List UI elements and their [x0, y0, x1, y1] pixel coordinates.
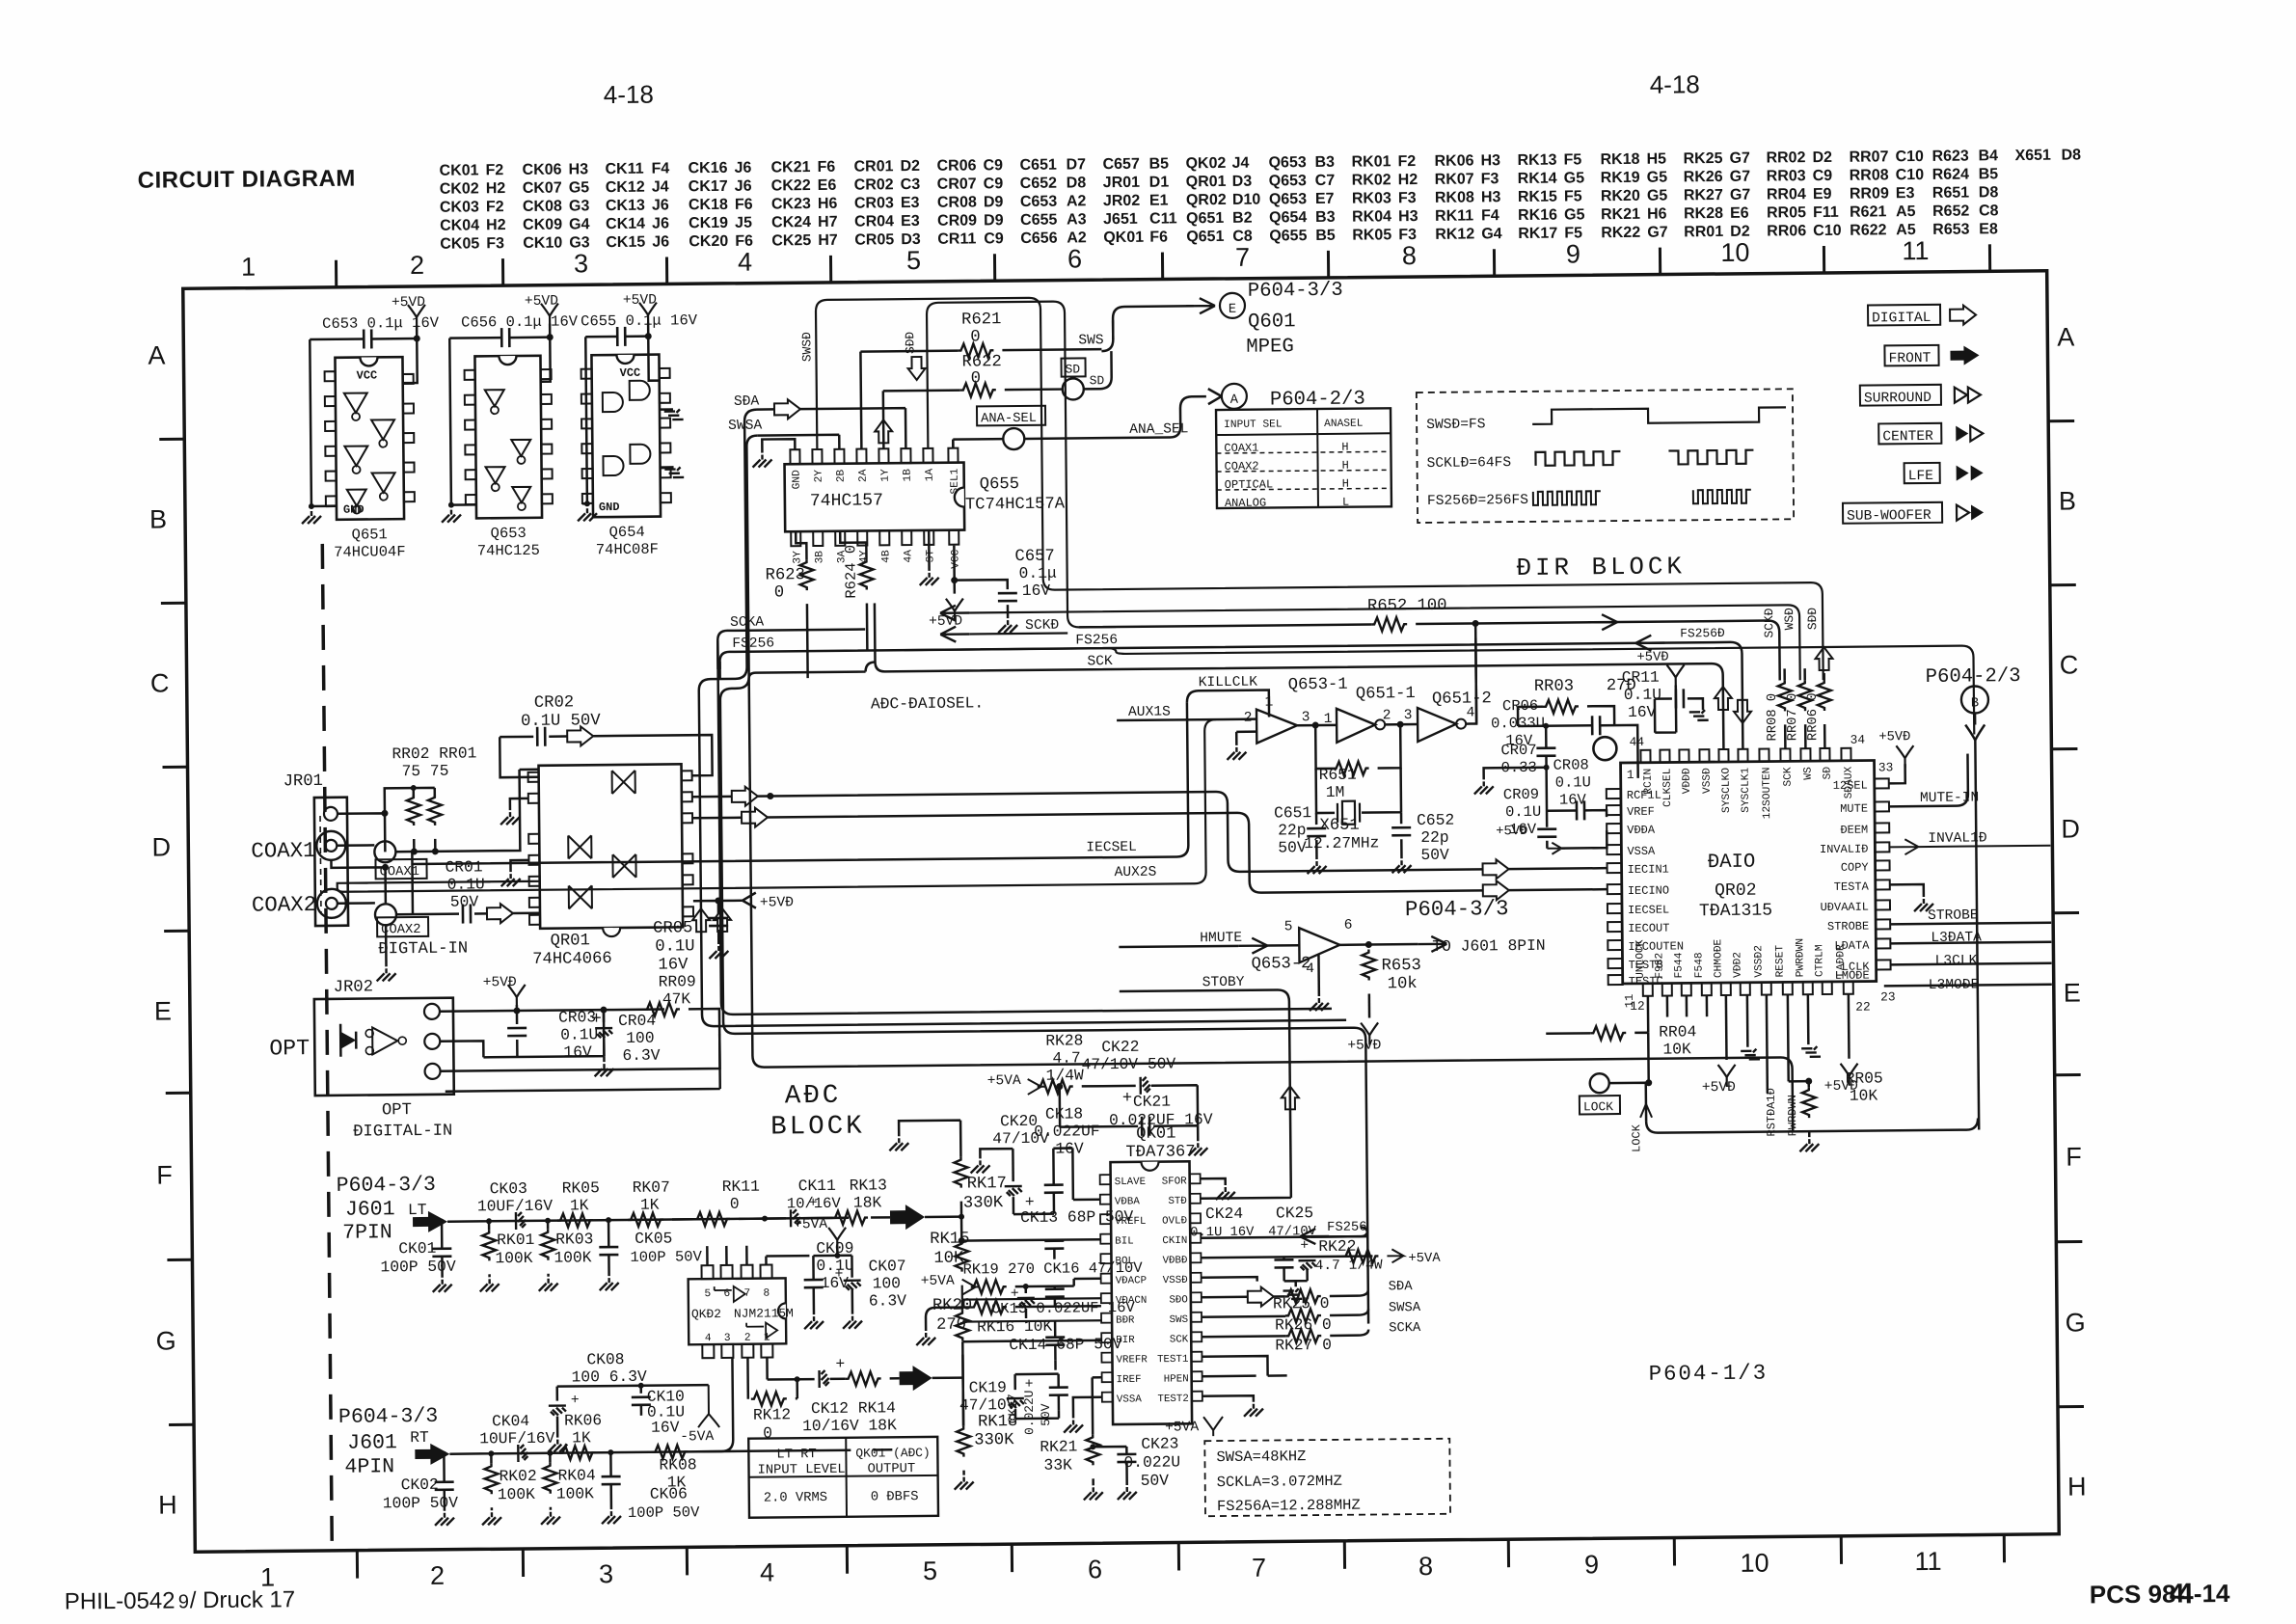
svg-text:QK01: QK01 — [1136, 1124, 1175, 1143]
svg-text:CK23: CK23 — [771, 196, 811, 212]
svg-text:23: 23 — [1880, 989, 1896, 1004]
svg-text:RK01: RK01 — [1351, 153, 1391, 170]
frequency info dashed box — [1204, 1439, 1450, 1516]
svg-text:C655: C655 — [1020, 212, 1058, 229]
CTRLM gnd — [1807, 994, 1810, 1044]
svg-text:75 75: 75 75 — [401, 762, 448, 780]
svg-text:A2: A2 — [1067, 193, 1087, 209]
up arrows near FS256B — [1715, 687, 1732, 710]
svg-text:B: B — [149, 504, 167, 533]
svg-text:SUB-WOOFER: SUB-WOOFER — [1847, 508, 1931, 525]
svg-text:INPUT SEL: INPUT SEL — [1224, 419, 1283, 431]
svg-text:F2: F2 — [1397, 153, 1416, 170]
svg-text:SCKLA=3.072MHZ: SCKLA=3.072MHZ — [1217, 1473, 1342, 1491]
svg-text:RK01: RK01 — [497, 1231, 534, 1249]
svg-text:A3: A3 — [1067, 211, 1087, 228]
svg-text:100: 100 — [626, 1029, 654, 1047]
svg-text:D9: D9 — [984, 212, 1004, 229]
waveform fs256 right — [1693, 490, 1751, 504]
svg-text:100K: 100K — [556, 1484, 594, 1502]
svg-text:CK08: CK08 — [523, 199, 562, 215]
svg-text:C10: C10 — [1895, 149, 1924, 165]
svg-text:TO J601 8PIN: TO J601 8PIN — [1432, 936, 1545, 956]
svg-text:E7: E7 — [1315, 191, 1335, 207]
svg-text:CK24: CK24 — [771, 214, 811, 230]
svg-text:C10: C10 — [1813, 223, 1842, 239]
filled arrow LT — [890, 1204, 925, 1230]
svg-text:VSSÐ: VSSÐ — [1702, 768, 1714, 794]
svg-text:H: H — [158, 1490, 177, 1519]
svg-text:R624: R624 — [1932, 167, 1970, 183]
svg-text:CK04: CK04 — [440, 217, 479, 233]
svg-text:C9: C9 — [1813, 168, 1833, 184]
svg-text:SWS: SWS — [1170, 1314, 1189, 1326]
CR02 wiring — [500, 737, 538, 777]
svg-text:0.1U 50V: 0.1U 50V — [521, 712, 601, 731]
svg-text:1: 1 — [1324, 712, 1333, 727]
grid row ticks left — [159, 439, 194, 1424]
svg-text:50V: 50V — [1141, 1472, 1170, 1490]
svg-text:+: + — [1300, 1238, 1309, 1254]
wire C656 left down — [449, 338, 475, 504]
svg-text:LFE: LFE — [1908, 469, 1933, 484]
svg-text:4PIN: 4PIN — [344, 1455, 394, 1478]
svg-text:VSSA: VSSA — [1627, 845, 1656, 858]
svg-text:AÐC: AÐC — [785, 1081, 842, 1112]
svg-text:CK07: CK07 — [868, 1257, 905, 1275]
svg-text:D9: D9 — [984, 194, 1004, 210]
connector A P604-2/3 — [1222, 384, 1247, 409]
svg-text:H3: H3 — [569, 161, 589, 177]
svg-text:+: + — [809, 1196, 818, 1211]
svg-text:MPEG: MPEG — [1246, 336, 1294, 358]
svg-text:4: 4 — [2177, 1578, 2194, 1610]
svg-text:7: 7 — [1235, 243, 1250, 272]
svg-text:SD: SD — [1090, 373, 1105, 388]
svg-text:SÐA: SÐA — [734, 394, 760, 410]
svg-text:A: A — [148, 340, 165, 369]
svg-text:F2: F2 — [486, 199, 504, 215]
svg-text:RK03: RK03 — [1352, 190, 1391, 206]
svg-text:RK05: RK05 — [562, 1178, 600, 1197]
svg-text:G7: G7 — [1730, 169, 1751, 185]
svg-text:SÐ: SÐ — [1823, 767, 1834, 780]
svg-text:RK28: RK28 — [1684, 205, 1723, 222]
svg-text:COAX2: COAX2 — [1225, 460, 1259, 474]
bus vertical FS256/SCK down — [719, 651, 1793, 1142]
svg-text:3Y: 3Y — [792, 551, 803, 564]
svg-text:F4: F4 — [1481, 207, 1499, 224]
svg-text:CLKSEL: CLKSEL — [1662, 768, 1674, 807]
svg-text:ÐIR BLOCK: ÐIR BLOCK — [1516, 553, 1686, 582]
svg-text:QK01 (AÐC): QK01 (AÐC) — [855, 1446, 930, 1461]
svg-text:Q653: Q653 — [491, 525, 527, 542]
svg-text:RK07: RK07 — [1435, 171, 1474, 187]
svg-text:1: 1 — [1627, 768, 1634, 782]
svg-text:4B: 4B — [880, 550, 892, 563]
svg-text:B3: B3 — [1314, 154, 1335, 171]
svg-text:E3: E3 — [901, 213, 920, 230]
svg-text:0: 0 — [730, 1195, 740, 1213]
svg-text:PWRÐWN: PWRÐWN — [1786, 1095, 1799, 1136]
svg-text:UÐVAAIL: UÐVAAIL — [1821, 901, 1870, 914]
svg-text:RK08: RK08 — [1435, 189, 1474, 205]
+5VB wire right of QR01 — [693, 901, 743, 914]
svg-text:OPTICAL: OPTICAL — [1225, 477, 1274, 491]
ground Q651 — [311, 505, 336, 508]
svg-text:ANA_SEL: ANA_SEL — [1129, 421, 1188, 438]
svg-text:Q654: Q654 — [609, 524, 645, 541]
svg-text:RR08 0: RR08 0 — [1766, 693, 1780, 742]
svg-text:CR09: CR09 — [1503, 786, 1539, 803]
svg-text:+5VD: +5VD — [623, 293, 657, 309]
down arrow above R622 — [907, 357, 925, 380]
svg-text:D10: D10 — [1232, 192, 1261, 208]
wires from top pins up — [860, 351, 953, 449]
svg-text:11: 11 — [1914, 1547, 1941, 1576]
svg-text:Q651: Q651 — [352, 526, 388, 543]
svg-text:F6: F6 — [1149, 230, 1168, 246]
svg-text:F: F — [2066, 1142, 2082, 1171]
svg-text:-14: -14 — [2194, 1579, 2230, 1608]
svg-text:C656 0.1μ 16V: C656 0.1μ 16V — [461, 312, 579, 331]
svg-text:C8: C8 — [1979, 203, 1999, 219]
bus vertical SDA down — [696, 404, 1346, 1026]
svg-text:FS256: FS256 — [732, 636, 774, 651]
svg-text:QR01: QR01 — [551, 932, 590, 950]
crystal X651 — [1316, 768, 1401, 813]
svg-text:HPEN: HPEN — [1164, 1373, 1189, 1385]
svg-text:TÐA1315: TÐA1315 — [1699, 902, 1772, 922]
svg-text:RK12: RK12 — [1435, 226, 1474, 242]
svg-text:16V: 16V — [1628, 703, 1657, 721]
svg-text:CK24: CK24 — [1205, 1204, 1243, 1223]
LFE label — [1904, 463, 1940, 483]
svg-text:E6: E6 — [1730, 205, 1749, 222]
svg-text:+: + — [1122, 1090, 1133, 1108]
svg-text:6.3V: 6.3V — [622, 1046, 660, 1065]
svg-text:F5: F5 — [1564, 188, 1582, 204]
svg-text:Q601: Q601 — [1248, 311, 1296, 333]
svg-text:D2: D2 — [1812, 149, 1832, 166]
FRONT label — [1884, 345, 1938, 366]
svg-text:RK13: RK13 — [850, 1176, 887, 1194]
grid ticks top — [336, 244, 1989, 286]
svg-text:COAX2: COAX2 — [252, 892, 316, 918]
svg-text:4: 4 — [705, 1333, 712, 1344]
svg-text:C652: C652 — [1020, 176, 1058, 192]
LOCK circle and label — [1590, 1073, 1609, 1093]
SUB-WOOFER label — [1843, 502, 1942, 524]
gnd left pin — [510, 798, 528, 810]
svg-text:MUTE-IN: MUTE-IN — [1920, 790, 1979, 806]
left gnd 2 — [510, 860, 528, 872]
svg-text:12SOUTEN: 12SOUTEN — [1762, 768, 1774, 820]
LADDR +5VD — [1848, 994, 1850, 1059]
svg-text:16V: 16V — [1559, 791, 1587, 808]
svg-text:1Y: 1Y — [880, 469, 892, 482]
svg-text:P604-3/3: P604-3/3 — [1405, 896, 1509, 922]
svg-text:E3: E3 — [1896, 185, 1915, 202]
svg-text:1: 1 — [241, 253, 256, 282]
svg-text:F5: F5 — [1563, 151, 1581, 168]
svg-text:+5VÐ: +5VÐ — [760, 895, 794, 910]
BIL/BOL wires — [1054, 1239, 1100, 1259]
svg-text:RK16 10K: RK16 10K — [977, 1317, 1053, 1337]
svg-text:CK03: CK03 — [490, 1179, 527, 1198]
svg-text:F3: F3 — [1481, 171, 1499, 187]
svg-text:B: B — [2059, 486, 2076, 515]
svg-text:RR03: RR03 — [1767, 168, 1806, 184]
svg-text:C655 0.1μ 16V: C655 0.1μ 16V — [581, 311, 698, 330]
QR01 right outputs — [692, 796, 732, 798]
svg-text:RR08: RR08 — [1850, 167, 1889, 183]
svg-text:C9: C9 — [983, 157, 1003, 174]
svg-text:TEST1: TEST1 — [1157, 1354, 1189, 1366]
svg-text:SCKÐ: SCKÐ — [1762, 608, 1776, 637]
VDD2 +5VD — [1725, 995, 1728, 1060]
HPEN wire — [1202, 1374, 1256, 1377]
svg-text:A: A — [2057, 322, 2074, 351]
waveform sws — [1532, 407, 1786, 424]
svg-text:QK01: QK01 — [1103, 230, 1144, 246]
svg-text:J6: J6 — [652, 215, 669, 231]
svg-text:RK25: RK25 — [1683, 150, 1722, 167]
svg-text:CK10: CK10 — [523, 235, 562, 252]
svg-text:+: + — [835, 1355, 845, 1373]
svg-text:VÐÐÐ: VÐÐÐ — [1682, 768, 1693, 794]
svg-text:D8: D8 — [1979, 184, 1999, 201]
svg-text:IECSEL: IECSEL — [1628, 904, 1669, 917]
svg-text:CR11: CR11 — [1622, 668, 1660, 687]
svg-text:RK19: RK19 — [1601, 170, 1640, 186]
svg-text:16V: 16V — [651, 1418, 680, 1436]
svg-text:CR07: CR07 — [1500, 742, 1536, 759]
svg-text:F3: F3 — [486, 235, 504, 252]
svg-text:B2: B2 — [1232, 210, 1253, 227]
svg-text:8: 8 — [1418, 1552, 1433, 1581]
svg-text:CR01: CR01 — [853, 158, 893, 175]
svg-text:CK09: CK09 — [523, 217, 562, 233]
TESTA gnd — [1890, 884, 1924, 897]
svg-text:E: E — [1229, 303, 1236, 317]
svg-text:VSSA: VSSA — [1117, 1394, 1143, 1405]
svg-text:ANA-SEL: ANA-SEL — [981, 412, 1037, 427]
VSSD2 gnd — [1746, 995, 1749, 1047]
svg-text:ÐAIO: ÐAIO — [1708, 852, 1756, 874]
svg-text:RR04: RR04 — [1767, 186, 1806, 203]
svg-text:SWSÐ=FS: SWSÐ=FS — [1426, 417, 1486, 433]
PWRDWN — [1788, 994, 1809, 1081]
svg-text:50V: 50V — [1278, 838, 1307, 856]
svg-text:C7: C7 — [1315, 173, 1336, 189]
svg-text:6: 6 — [1067, 244, 1082, 273]
svg-text:SLAVE: SLAVE — [1115, 1177, 1147, 1188]
svg-text:G7: G7 — [1729, 150, 1750, 167]
CENTER label — [1878, 423, 1941, 445]
svg-text:2: 2 — [744, 1333, 751, 1344]
svg-text:CK05: CK05 — [440, 235, 479, 252]
svg-text:7PIN: 7PIN — [342, 1221, 392, 1244]
svg-text:G5: G5 — [1647, 188, 1668, 204]
svg-text:CR05: CR05 — [653, 919, 692, 937]
svg-text:RK04: RK04 — [557, 1466, 595, 1484]
svg-text:E9: E9 — [1813, 186, 1832, 203]
svg-text:CK23: CK23 — [1141, 1434, 1178, 1452]
svg-text:RK13: RK13 — [1517, 152, 1556, 169]
svg-text:GND: GND — [599, 501, 620, 514]
svg-text:RK22: RK22 — [1601, 225, 1640, 241]
jr01 ground — [385, 925, 388, 966]
svg-text:H: H — [1342, 477, 1349, 491]
svg-text:G3: G3 — [569, 198, 590, 214]
svg-text:10: 10 — [1720, 238, 1749, 267]
LT rail wire — [447, 1217, 890, 1221]
svg-text:QR02: QR02 — [1186, 192, 1227, 208]
svg-text:RR03: RR03 — [1534, 677, 1574, 695]
svg-text:2.0 VRMS: 2.0 VRMS — [764, 1491, 827, 1506]
svg-text:LOCK: LOCK — [1630, 1123, 1643, 1152]
svg-text:G5: G5 — [1564, 170, 1585, 186]
svg-text:CK11: CK11 — [606, 161, 644, 177]
svg-text:TÐA7367: TÐA7367 — [1125, 1143, 1195, 1162]
svg-text:RK06: RK06 — [564, 1411, 602, 1429]
svg-text:+5VA: +5VA — [921, 1274, 955, 1289]
svg-text:RK26: RK26 — [1684, 169, 1723, 185]
svg-text:5: 5 — [906, 246, 921, 275]
svg-text:+5VA: +5VA — [794, 1217, 827, 1232]
big O ring — [1593, 737, 1616, 760]
svg-text:D1: D1 — [1149, 174, 1170, 190]
svg-text:R652 100: R652 100 — [1367, 597, 1447, 616]
svg-text:IREF: IREF — [1117, 1374, 1142, 1386]
svg-text:TESTC: TESTC — [1629, 975, 1663, 988]
svg-text:0.1U: 0.1U — [1555, 773, 1591, 791]
svg-text:0.1μ: 0.1μ — [1019, 564, 1057, 582]
svg-text:J601: J601 — [345, 1198, 395, 1221]
COAX1 signal wire — [395, 770, 540, 852]
svg-text:74HC4066: 74HC4066 — [532, 950, 612, 969]
svg-text:4A: 4A — [903, 550, 914, 563]
svg-text:LOCK: LOCK — [1583, 1099, 1613, 1114]
JR02 wiring to CR03/CR04 — [440, 1010, 664, 1058]
svg-text:G: G — [2065, 1308, 2085, 1337]
svg-text:F: F — [156, 1160, 173, 1189]
svg-text:RESET: RESET — [1774, 945, 1786, 978]
svg-text:VREF: VREF — [1627, 805, 1655, 819]
svg-text:0.022U: 0.022U — [1022, 1390, 1037, 1435]
svg-text:RK02: RK02 — [1352, 172, 1391, 188]
svg-text:7: 7 — [1252, 1554, 1266, 1583]
svg-text:C656: C656 — [1020, 230, 1058, 247]
svg-text:D2: D2 — [900, 158, 920, 175]
svg-text:CK14 68P 50V: CK14 68P 50V — [1009, 1335, 1122, 1354]
svg-text:+: + — [591, 1010, 602, 1029]
svg-text:R624 0: R624 0 — [842, 545, 860, 599]
svg-text:SYSCLKO: SYSCLKO — [1721, 768, 1733, 813]
svg-text:F548: F548 — [1693, 952, 1705, 978]
svg-text:VSSÐ2: VSSÐ2 — [1753, 945, 1765, 978]
svg-text:RK04: RK04 — [1352, 208, 1391, 225]
svg-text:4Y: 4Y — [858, 550, 870, 563]
svg-text:CR01: CR01 — [445, 857, 482, 876]
svg-text:G5: G5 — [569, 179, 590, 196]
svg-text:VÐBÐ: VÐBÐ — [1163, 1255, 1188, 1266]
svg-text:J6: J6 — [652, 197, 669, 213]
svg-text:C9: C9 — [984, 230, 1004, 247]
dashed board boundary line — [322, 544, 332, 1548]
svg-text:RK17: RK17 — [967, 1175, 1007, 1193]
svg-text:CK17: CK17 — [689, 178, 728, 195]
svg-text:C653: C653 — [1020, 194, 1058, 210]
svg-text:0 ÐBFS: 0 ÐBFS — [871, 1490, 919, 1504]
svg-text:1A: 1A — [925, 469, 936, 482]
svg-text:2: 2 — [1383, 708, 1391, 723]
SD node circle — [1063, 378, 1084, 399]
svg-text:COAX1: COAX1 — [251, 838, 315, 864]
svg-text:16V: 16V — [1022, 582, 1051, 600]
svg-text:JR01: JR01 — [1103, 175, 1141, 191]
svg-text:SCKA: SCKA — [1389, 1321, 1421, 1336]
svg-text:CK02: CK02 — [401, 1475, 439, 1494]
VREFR wire + CK17 — [1055, 1360, 1101, 1377]
svg-text:10/16V 18K: 10/16V 18K — [802, 1416, 897, 1435]
svg-text:QK02: QK02 — [1185, 155, 1226, 172]
svg-text:CHMOÐE: CHMOÐE — [1713, 938, 1724, 978]
svg-text:QR02: QR02 — [1715, 881, 1757, 901]
svg-text:L: L — [1342, 496, 1349, 509]
waveform legend dashed box — [1417, 389, 1794, 523]
svg-text:SWSA: SWSA — [1389, 1301, 1421, 1315]
ANA-SEL labelled box — [977, 406, 1045, 426]
svg-text:R652: R652 — [1932, 203, 1970, 220]
svg-text:SÐA: SÐA — [1389, 1280, 1414, 1294]
svg-text:Q655: Q655 — [1269, 228, 1307, 244]
svg-text:22: 22 — [1855, 1000, 1871, 1015]
svg-text:C652: C652 — [1417, 811, 1454, 829]
svg-text:H2: H2 — [486, 217, 506, 233]
svg-text:LT RT: LT RT — [776, 1448, 817, 1462]
svg-text:Q653-2: Q653-2 — [1251, 955, 1310, 974]
+5VD supply Q653 — [541, 304, 558, 326]
svg-text:RK17: RK17 — [1518, 226, 1557, 242]
svg-text:FS256A=12.288MHZ: FS256A=12.288MHZ — [1217, 1497, 1361, 1515]
svg-text:CK02: CK02 — [440, 180, 479, 197]
svg-text:+: + — [1025, 1377, 1034, 1393]
svg-text:4: 4 — [1306, 961, 1314, 977]
svg-text:PWRÐWN: PWRÐWN — [1795, 938, 1806, 977]
svg-text:SURROUND: SURROUND — [1864, 391, 1931, 407]
svg-text:3B: 3B — [814, 551, 825, 564]
svg-text:RK20: RK20 — [932, 1297, 972, 1315]
VDBA wire from CK20/CK18 — [1054, 1213, 1100, 1219]
waveform fs256 left — [1533, 491, 1601, 505]
svg-text:J4: J4 — [1231, 155, 1249, 172]
svg-text:P604-2/3: P604-2/3 — [1926, 665, 2021, 689]
connector B circle — [1961, 686, 1988, 713]
svg-text:6: 6 — [1088, 1555, 1102, 1583]
svg-text:74HC08F: 74HC08F — [596, 541, 659, 559]
svg-text:RK08: RK08 — [659, 1455, 696, 1474]
svg-text:Q653: Q653 — [1268, 154, 1306, 171]
svg-text:9: 9 — [178, 1591, 189, 1612]
svg-text:F6: F6 — [817, 159, 835, 176]
svg-text:/ Druck 17: / Druck 17 — [190, 1586, 296, 1613]
+5VA antenna — [828, 1228, 846, 1250]
svg-text:G7: G7 — [1647, 225, 1668, 241]
svg-text:VSSÐ: VSSÐ — [1163, 1275, 1188, 1286]
svg-text:RR05: RR05 — [1767, 204, 1806, 221]
